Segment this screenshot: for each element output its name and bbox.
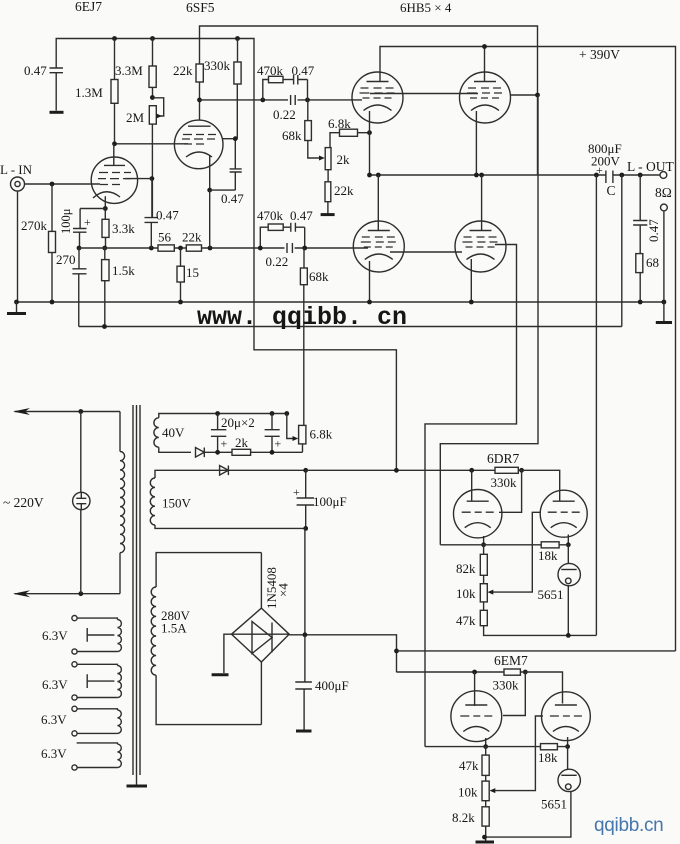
wire cathode to 100u [80,208,105,210]
svg-text:5651: 5651 [538,587,564,602]
resistor 470k upper [263,80,269,100]
tube 6SF5 [174,120,223,169]
winding 6.3V no.2 [72,662,77,667]
wire anode caps +390V rail [380,47,676,652]
svg-text:68k: 68k [309,269,329,284]
wire B+ to 330k rail [397,671,505,673]
svg-text:6EM7: 6EM7 [494,653,528,668]
svg-text:+: + [84,215,91,229]
potentiometer 10k 6EM7 [482,781,489,801]
node lamp top [78,409,83,414]
wire bridge plus rail [289,635,396,673]
svg-text:+: + [221,437,228,451]
wire U7 cathode [485,738,487,747]
potentiometer 6.8k psu [284,411,289,416]
capacitor 0.47 lower coupling [291,223,305,248]
wire output/cathode bus y=175 [370,174,661,176]
svg-text:470k: 470k [257,208,284,223]
resistor 3.3k [104,209,106,220]
svg-text:1.5k: 1.5k [112,263,135,278]
resistor 68k upper [307,100,309,121]
svg-text:6HB5 × 4: 6HB5 × 4 [400,0,452,15]
capacitor 0.47 upper coupling [294,75,308,100]
resistor 2k psu [232,449,251,455]
svg-text:0.47: 0.47 [292,63,315,78]
svg-text:+: + [596,163,603,177]
wire U2 cathode [475,111,477,175]
node 3.3M/2M top [150,95,155,100]
resistor 18k 6DR7 [541,542,559,548]
wire 6EJ7 plate to 6SF5 grid [115,143,189,145]
resistor 8.2k [482,807,489,826]
svg-text:330k: 330k [491,475,518,490]
node 0.47 col y248 [149,246,154,251]
svg-text:10k: 10k [456,586,476,601]
wire input to grid [25,183,101,185]
resistor 18k 6EM7 [541,744,558,750]
wire to U8 anode [520,672,562,704]
wire U1 cathode column [369,111,371,175]
wire U4 plate exit to right column [425,245,517,747]
wire U6 grid riser to 10k wiper [492,512,541,592]
node rail-1.3M [112,36,117,41]
resistor 270k [51,184,53,231]
node rail-3.3M [150,36,155,41]
wire U3 anode cap [377,175,379,231]
wire top rail B+ front-end y=38.5 [56,39,254,100]
resistor 330k 6DR7 [495,467,518,473]
wire U3 cathode [369,261,371,302]
capacitor 0.22 lower [287,243,292,253]
regulator 5651 no.1 [567,545,569,564]
regulator 5651 no.2 [567,747,569,770]
wire 6DR7 cathode row [440,544,568,546]
resistor 330k 6EM7 [504,669,520,675]
wire B+ column from front-end rail [254,100,396,470]
node 6.8k right on cathode col [367,130,372,135]
capacitor 0.47 zobel [639,175,641,221]
mains arrow top [15,411,120,413]
svg-text:100μF: 100μF [313,494,347,509]
svg-text:22k: 22k [334,183,354,198]
potentiometer 2M [149,106,156,124]
node 22k right [208,246,213,251]
svg-text:~ 220V: ~ 220V [3,495,44,510]
svg-text:0.47: 0.47 [156,208,179,223]
svg-text:15: 15 [186,265,199,280]
svg-text:20μ×2: 20μ×2 [221,415,255,430]
svg-text:qqibb.cn: qqibb.cn [594,815,663,836]
potentiometer 2k [325,148,331,170]
node 3.3k bottom [102,246,107,251]
wire cathode bus y=248 [79,247,368,249]
wire U2 plate exit [511,94,538,96]
svg-text:0.47: 0.47 [646,219,661,242]
diode 40V [196,448,218,458]
svg-text:68k: 68k [282,128,302,143]
wire 330k node to U7 grid row [503,672,525,716]
wire to U6 anode [518,470,559,501]
tube 6HB5 lower-right U4 [455,221,506,272]
mains arrow bottom [15,593,120,595]
resistor 6.8k horizontal [340,129,358,136]
capacitor 400uF [304,635,306,682]
svg-text:330k: 330k [204,58,231,73]
wire U8 grid riser to 10k wiper [494,716,543,791]
svg-text:1.3M: 1.3M [75,85,103,100]
tube 6HB5 upper-left U1 [352,72,403,123]
resistor 470k lower [268,224,283,230]
svg-text:100μ: 100μ [59,208,73,234]
svg-text:6.3V: 6.3V [42,628,68,643]
svg-text:82k: 82k [456,561,476,576]
svg-text:2k: 2k [337,152,351,167]
tube 6EJ7 [91,157,137,203]
terminal L-OUT [660,172,667,179]
svg-text:0.47: 0.47 [24,63,47,78]
node coupling right / 68k top [302,246,307,251]
wire U4 cathode [470,259,472,302]
resistor 15 [180,248,182,266]
resistor 47k 6DR7 [480,610,487,625]
wire output sense column to 6DR7 divider [595,175,597,635]
tube 6HB5 upper-right U2 [460,72,511,123]
wire B+ rail to right riser [397,650,676,652]
svg-text:10k: 10k [458,785,478,800]
wire 150V bottom to bridge plus [304,528,306,634]
input jack [11,177,25,191]
svg-text:150V: 150V [162,496,192,511]
svg-text:270k: 270k [21,218,48,233]
winding 6.3V no.3 [72,706,77,711]
wire coupling feed y=99.9 [200,99,363,101]
svg-text:22k: 22k [182,230,202,245]
wire 6SF5 cathode [209,155,211,190]
node coupling right [305,98,310,103]
capacitor 0.22 upper [291,95,296,105]
winding 280V [156,553,261,587]
resistor 3.3M [152,39,154,67]
node 100u bottom [77,246,82,251]
wire feedback bus y=326.5 [79,175,622,327]
wire lower coupling loop 470k/0.47 [260,227,268,248]
svg-text:6.3V: 6.3V [41,746,67,761]
node 56/22k [178,246,183,251]
svg-text:L - IN: L - IN [0,162,33,177]
ground bridge minus [224,634,232,673]
bridge rectifier [260,553,262,609]
wire ground bus y=302 [17,301,664,303]
svg-text:6.8k: 6.8k [328,116,351,131]
svg-text:6EJ7: 6EJ7 [75,0,102,14]
resistor 1.5k [102,260,109,281]
node 6EJ7 cathode [103,206,108,211]
wire 150V B+ rail [306,469,495,471]
svg-text:6.3V: 6.3V [41,712,67,727]
svg-text:47k: 47k [456,613,476,628]
svg-text:2k: 2k [235,435,249,450]
svg-text:+ 390V: + 390V [579,47,620,62]
winding 6.3V no.1 [72,616,77,621]
wire U8 cathode [567,737,569,747]
svg-text:5651: 5651 [541,797,567,812]
tube 6EM7 U7 [474,672,476,706]
resistor 22k plate [196,64,203,82]
node coupling left [260,98,265,103]
svg-text:6.8k: 6.8k [310,427,333,442]
node 22k bottom [197,98,202,103]
resistor 22k lower [325,182,331,202]
svg-text:330k: 330k [493,678,520,693]
svg-text:40V: 40V [162,425,185,440]
svg-text:1.5A: 1.5A [161,621,187,636]
ground core [136,775,138,785]
node 2M bottom / 6EJ7 grid [150,176,155,181]
wire 40V bottom rail [218,444,303,452]
ground 6EM7 [476,841,495,844]
resistor 82k [483,545,485,555]
svg-text:0.22: 0.22 [273,107,296,122]
resistor 68 zobel [639,225,641,254]
svg-text:+: + [293,485,300,499]
capacitor 0.47 6SF5 col [151,179,153,218]
svg-text:0.47: 0.47 [290,208,313,223]
capacitor 20u no.1 [215,411,220,416]
svg-text:6DR7: 6DR7 [487,451,520,466]
capacitor 100u [79,209,81,229]
svg-text:18k: 18k [538,750,558,765]
capacitor 0.47 6SF5 plate [234,139,236,169]
capacitor 800uF 200V C [606,171,613,184]
capacitor 270 [78,248,80,269]
wire jack ground leg [17,191,19,302]
svg-text:270: 270 [56,252,76,267]
wire U6 cathode [567,535,569,545]
wire 6SF5 plate node [223,138,235,140]
terminal 8ohm [661,204,668,211]
wire grid tie U3-U4 [390,251,462,253]
capacitor 0.47 input top [50,68,64,111]
svg-text:www. qqibb. cn: www. qqibb. cn [197,303,407,332]
svg-text:8.2k: 8.2k [452,810,475,825]
winding 6.3V no.4 [77,743,118,744]
transformer primary winding [119,412,121,452]
wire grid tie U1-U2 [370,93,478,95]
svg-text:6.3V: 6.3V [42,677,68,692]
tube 6HB5 lower-left U3 [353,221,404,272]
svg-text:+: + [275,437,282,451]
resistor 68k lower [303,248,305,268]
resistor 47k 6EM7 [485,747,487,756]
svg-text:68: 68 [646,255,659,270]
resistor 22k feedback [186,245,201,251]
capacitor 100uF [303,468,308,473]
svg-text:0.22: 0.22 [266,254,289,269]
ground right output [663,302,665,322]
wire 6EM7 cathode row [425,746,568,748]
tube 6DR7 U6 [540,490,587,537]
svg-text:22k: 22k [173,63,193,78]
resistor 56 [158,245,174,251]
wire U5 cathode [483,536,485,545]
neon lamp [80,412,82,493]
svg-text:400μF: 400μF [315,678,349,693]
resistor 330k [237,39,239,63]
wire 6EJ7 grid to column [125,178,152,180]
capacitor 20u no.2 [270,411,275,416]
winding 150V [155,470,306,478]
svg-text:18k: 18k [538,548,558,563]
wire U2 plate column down to 6DR7 cathode [440,95,538,545]
ground below 0.47 [50,111,64,114]
svg-text:2M: 2M [126,110,145,125]
node rail-330k [235,36,240,41]
wire 330k node to U5 grid row [499,470,522,512]
svg-text:8Ω: 8Ω [655,185,672,200]
svg-text:3.3M: 3.3M [115,63,143,78]
transformer core [133,405,140,775]
svg-text:L - OUT: L - OUT [627,159,674,174]
svg-text:6SF5: 6SF5 [186,0,215,15]
svg-text:C: C [607,183,616,198]
wire plate rail y=26 [200,26,538,175]
tube 6EM7 U8 [542,692,591,741]
ground 22k [321,213,335,216]
resistor 1.3M [114,39,116,80]
svg-text:470k: 470k [257,63,284,78]
svg-text:0.47: 0.47 [221,191,244,206]
svg-text:56: 56 [158,230,172,245]
svg-text:3.3k: 3.3k [112,221,135,236]
wire U4 anode cap [481,175,483,231]
potentiometer 10k 6DR7 [480,584,487,602]
svg-text:47k: 47k [459,758,479,773]
svg-text:×4: ×4 [276,583,291,597]
winding 40V [159,414,287,418]
node lamp bottom [78,591,83,596]
tube 6DR7 U5 [471,470,473,501]
diode 150V [220,466,229,476]
ground left main [16,302,18,313]
